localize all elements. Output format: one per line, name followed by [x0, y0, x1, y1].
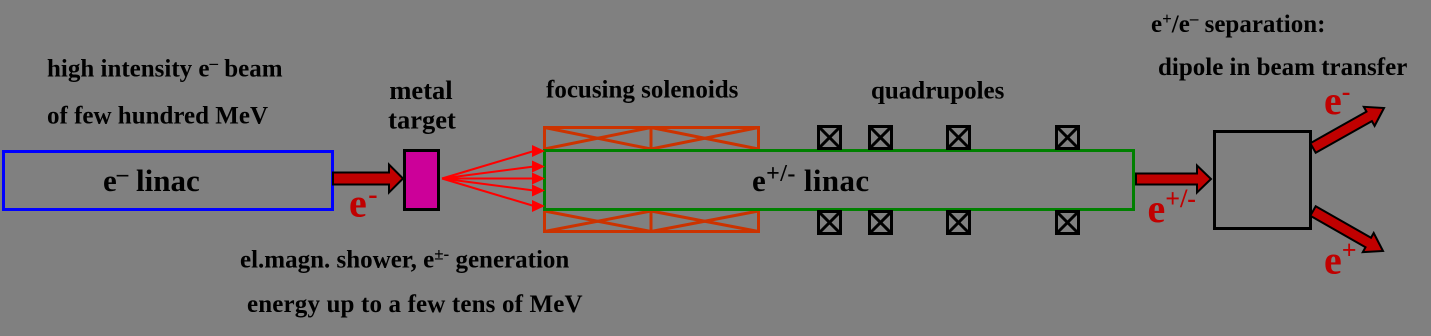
fan arrow 3: [442, 178, 534, 180]
quadrupole Q6 (bottom): [870, 212, 892, 234]
svg-text:quadrupoles: quadrupoles: [871, 78, 1005, 105]
quadrupole Q3 (top): [948, 127, 970, 149]
fan arrow 4: [442, 179, 534, 191]
svg-text:focusing solenoids: focusing solenoids: [546, 77, 739, 104]
e- linac box (blue): [4, 152, 333, 210]
solenoid: bottom band X (right cell): [651, 211, 759, 232]
solenoid: vertical divider: [650, 128, 653, 232]
svg-text:el.magn. shower, e±- generatio: el.magn. shower, e±- generation: [240, 245, 569, 274]
svg-text:target: target: [388, 105, 456, 135]
thick red arrow: e+/- into dipole: [1136, 166, 1211, 193]
svg-text:metal: metal: [389, 75, 452, 105]
fan arrow 1: [442, 151, 534, 179]
quadrupole Q2 (top): [870, 127, 892, 149]
metal target box (magenta): [405, 151, 439, 210]
solenoid: top band X (left cell): [545, 128, 652, 150]
fan arrow 5: [442, 179, 534, 207]
fan arrow 2: [442, 167, 534, 179]
svg-text:of few hundred MeV: of few hundred MeV: [47, 103, 268, 130]
solenoid: bottom band X (left cell): [545, 211, 652, 232]
red arrow: e+ out of dipole (down): [1310, 206, 1383, 252]
svg-text:energy up to a few tens of MeV: energy up to a few tens of MeV: [247, 291, 583, 318]
dipole box: [1215, 132, 1311, 229]
thick red arrow: e- beam into target: [333, 165, 403, 193]
svg-text:high intensity e– beam: high intensity e– beam: [47, 54, 283, 83]
svg-text:e+/e– separation:: e+/e– separation:: [1151, 9, 1325, 38]
quadrupole Q8 (bottom): [1057, 212, 1079, 234]
quadrupole Q1 (top): [819, 127, 841, 149]
solenoid: orange outer rectangle: [545, 128, 759, 232]
svg-text:dipole in beam transfer: dipole in beam transfer: [1158, 54, 1407, 81]
quadrupole Q7 (bottom): [948, 212, 970, 234]
quadrupole Q4 (top): [1057, 127, 1079, 149]
solenoid: top band X (right cell): [651, 128, 759, 150]
e+/- linac box (green, gray filled): [545, 151, 1134, 210]
quadrupole Q5 (bottom): [819, 212, 841, 234]
red arrow: e- out of dipole (up): [1310, 107, 1384, 153]
